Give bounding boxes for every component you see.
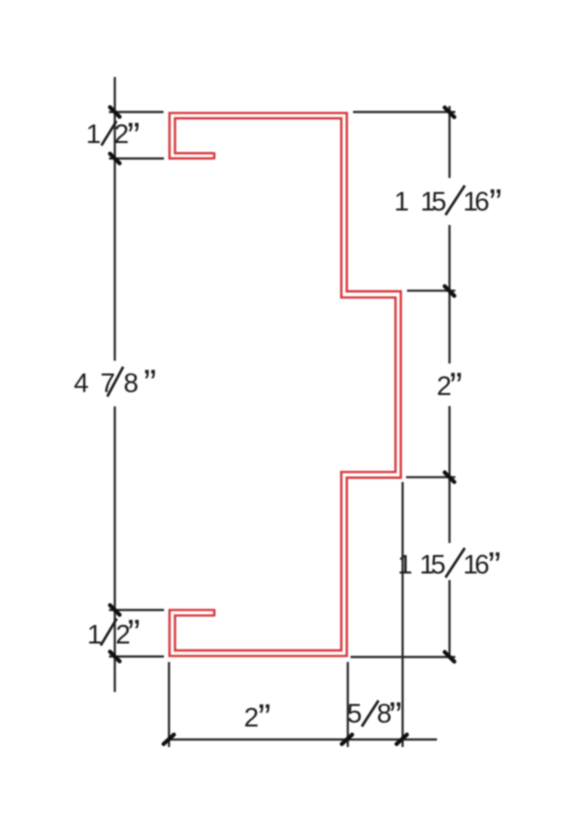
svg-text:”: ” (258, 698, 271, 740)
label 1/2 top (86, 116, 140, 158)
profile inner contour (175, 118, 396, 650)
tick left bottom (110, 652, 120, 662)
tick bottom right (397, 735, 407, 744)
left dimension line (114, 77, 116, 692)
tick left upper lip (110, 154, 120, 164)
label 1 15/16 bottom (397, 546, 500, 588)
svg-text:”: ” (488, 546, 501, 588)
svg-text:4: 4 (74, 368, 89, 398)
label 4 7/8 (74, 363, 157, 405)
right dimension line (448, 106, 450, 659)
svg-text:”: ” (389, 696, 402, 738)
svg-text:”: ” (127, 613, 140, 655)
lip end caps (213, 152, 215, 616)
tick right step bottom (445, 472, 455, 482)
extension line bottom-left (109, 655, 164, 657)
tick bottom mid (342, 735, 352, 744)
svg-text:5: 5 (431, 187, 446, 217)
extension line step bottom (406, 476, 455, 478)
tick marks (110, 107, 454, 744)
tick bottom left (164, 735, 174, 744)
tick right bottom (445, 652, 455, 662)
extension line bottom-right (351, 656, 456, 658)
tick right step top (445, 286, 455, 296)
svg-text:5: 5 (347, 699, 362, 729)
extension line bottom lip (109, 609, 164, 611)
bottom dimension line (169, 738, 437, 740)
svg-text:”: ” (489, 183, 502, 225)
extension line vertical mid (347, 662, 349, 747)
svg-text:”: ” (144, 363, 157, 405)
svg-text:1: 1 (397, 550, 412, 580)
profile outer contour (170, 113, 401, 656)
svg-text:”: ” (127, 116, 140, 158)
extension line step top (407, 290, 455, 292)
tick left lower lip (110, 605, 120, 615)
label 5/8 (347, 696, 402, 738)
label 1/2 bottom (87, 613, 140, 655)
svg-text:2: 2 (244, 703, 259, 733)
svg-text:1: 1 (86, 119, 101, 149)
extension line top-right (353, 111, 455, 113)
wire (109, 77, 455, 747)
svg-text:1: 1 (394, 187, 409, 217)
label 1 15/16 top (394, 183, 502, 225)
svg-text:8: 8 (123, 368, 138, 398)
svg-text:6: 6 (474, 187, 489, 217)
label 2 right (437, 366, 463, 408)
svg-text:”: ” (450, 366, 463, 408)
label 2 bottom (244, 698, 271, 740)
extension line vertical right (402, 482, 404, 747)
extension line top lip (109, 157, 164, 159)
extension line top-left (109, 111, 164, 113)
extension line vertical left (168, 662, 170, 747)
tick left top (110, 107, 120, 117)
svg-text:5: 5 (431, 550, 446, 580)
tick right top (445, 108, 455, 118)
